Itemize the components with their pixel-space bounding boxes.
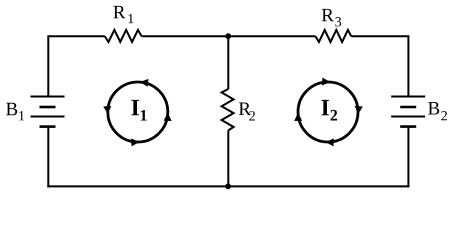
I2 arrowhead left (points up)	[294, 113, 302, 121]
mesh loop I2 circle	[298, 82, 358, 142]
wire top-left segment	[48, 35, 105, 37]
I1 arrowhead bottom (points right)	[131, 138, 140, 146]
label B1	[6, 103, 24, 121]
resistor R3	[316, 30, 352, 42]
wire top-middle segment	[142, 35, 316, 37]
I1 arrowhead left (points down)	[103, 106, 112, 115]
label B2	[428, 102, 447, 120]
I1 arrowhead right (points up)	[164, 113, 172, 121]
mesh loop I1 circle	[108, 82, 168, 142]
wire right lower	[407, 127, 409, 188]
battery B1	[31, 97, 65, 127]
wire top-right segment	[351, 35, 408, 37]
node bottom junction	[225, 183, 231, 189]
label R2	[239, 103, 255, 121]
resistor R2	[222, 89, 234, 130]
I2 arrowhead bottom (points left)	[325, 138, 334, 146]
battery B2	[391, 97, 425, 127]
resistor R1	[105, 30, 142, 42]
wire bottom	[47, 185, 409, 187]
label R1	[113, 6, 133, 23]
I2 arrowhead top (points right)	[322, 77, 331, 86]
wire middle lower	[227, 130, 229, 186]
label I2	[321, 100, 337, 121]
I1 arrowhead top (points left)	[140, 78, 149, 87]
wire middle upper	[227, 36, 229, 89]
label R3	[322, 9, 341, 27]
wire left upper	[47, 35, 49, 96]
wire left lower	[47, 127, 49, 188]
I2 arrowhead right (points down)	[354, 106, 363, 115]
node top junction	[225, 33, 231, 39]
wire right upper	[407, 35, 409, 96]
label I1	[131, 100, 146, 121]
